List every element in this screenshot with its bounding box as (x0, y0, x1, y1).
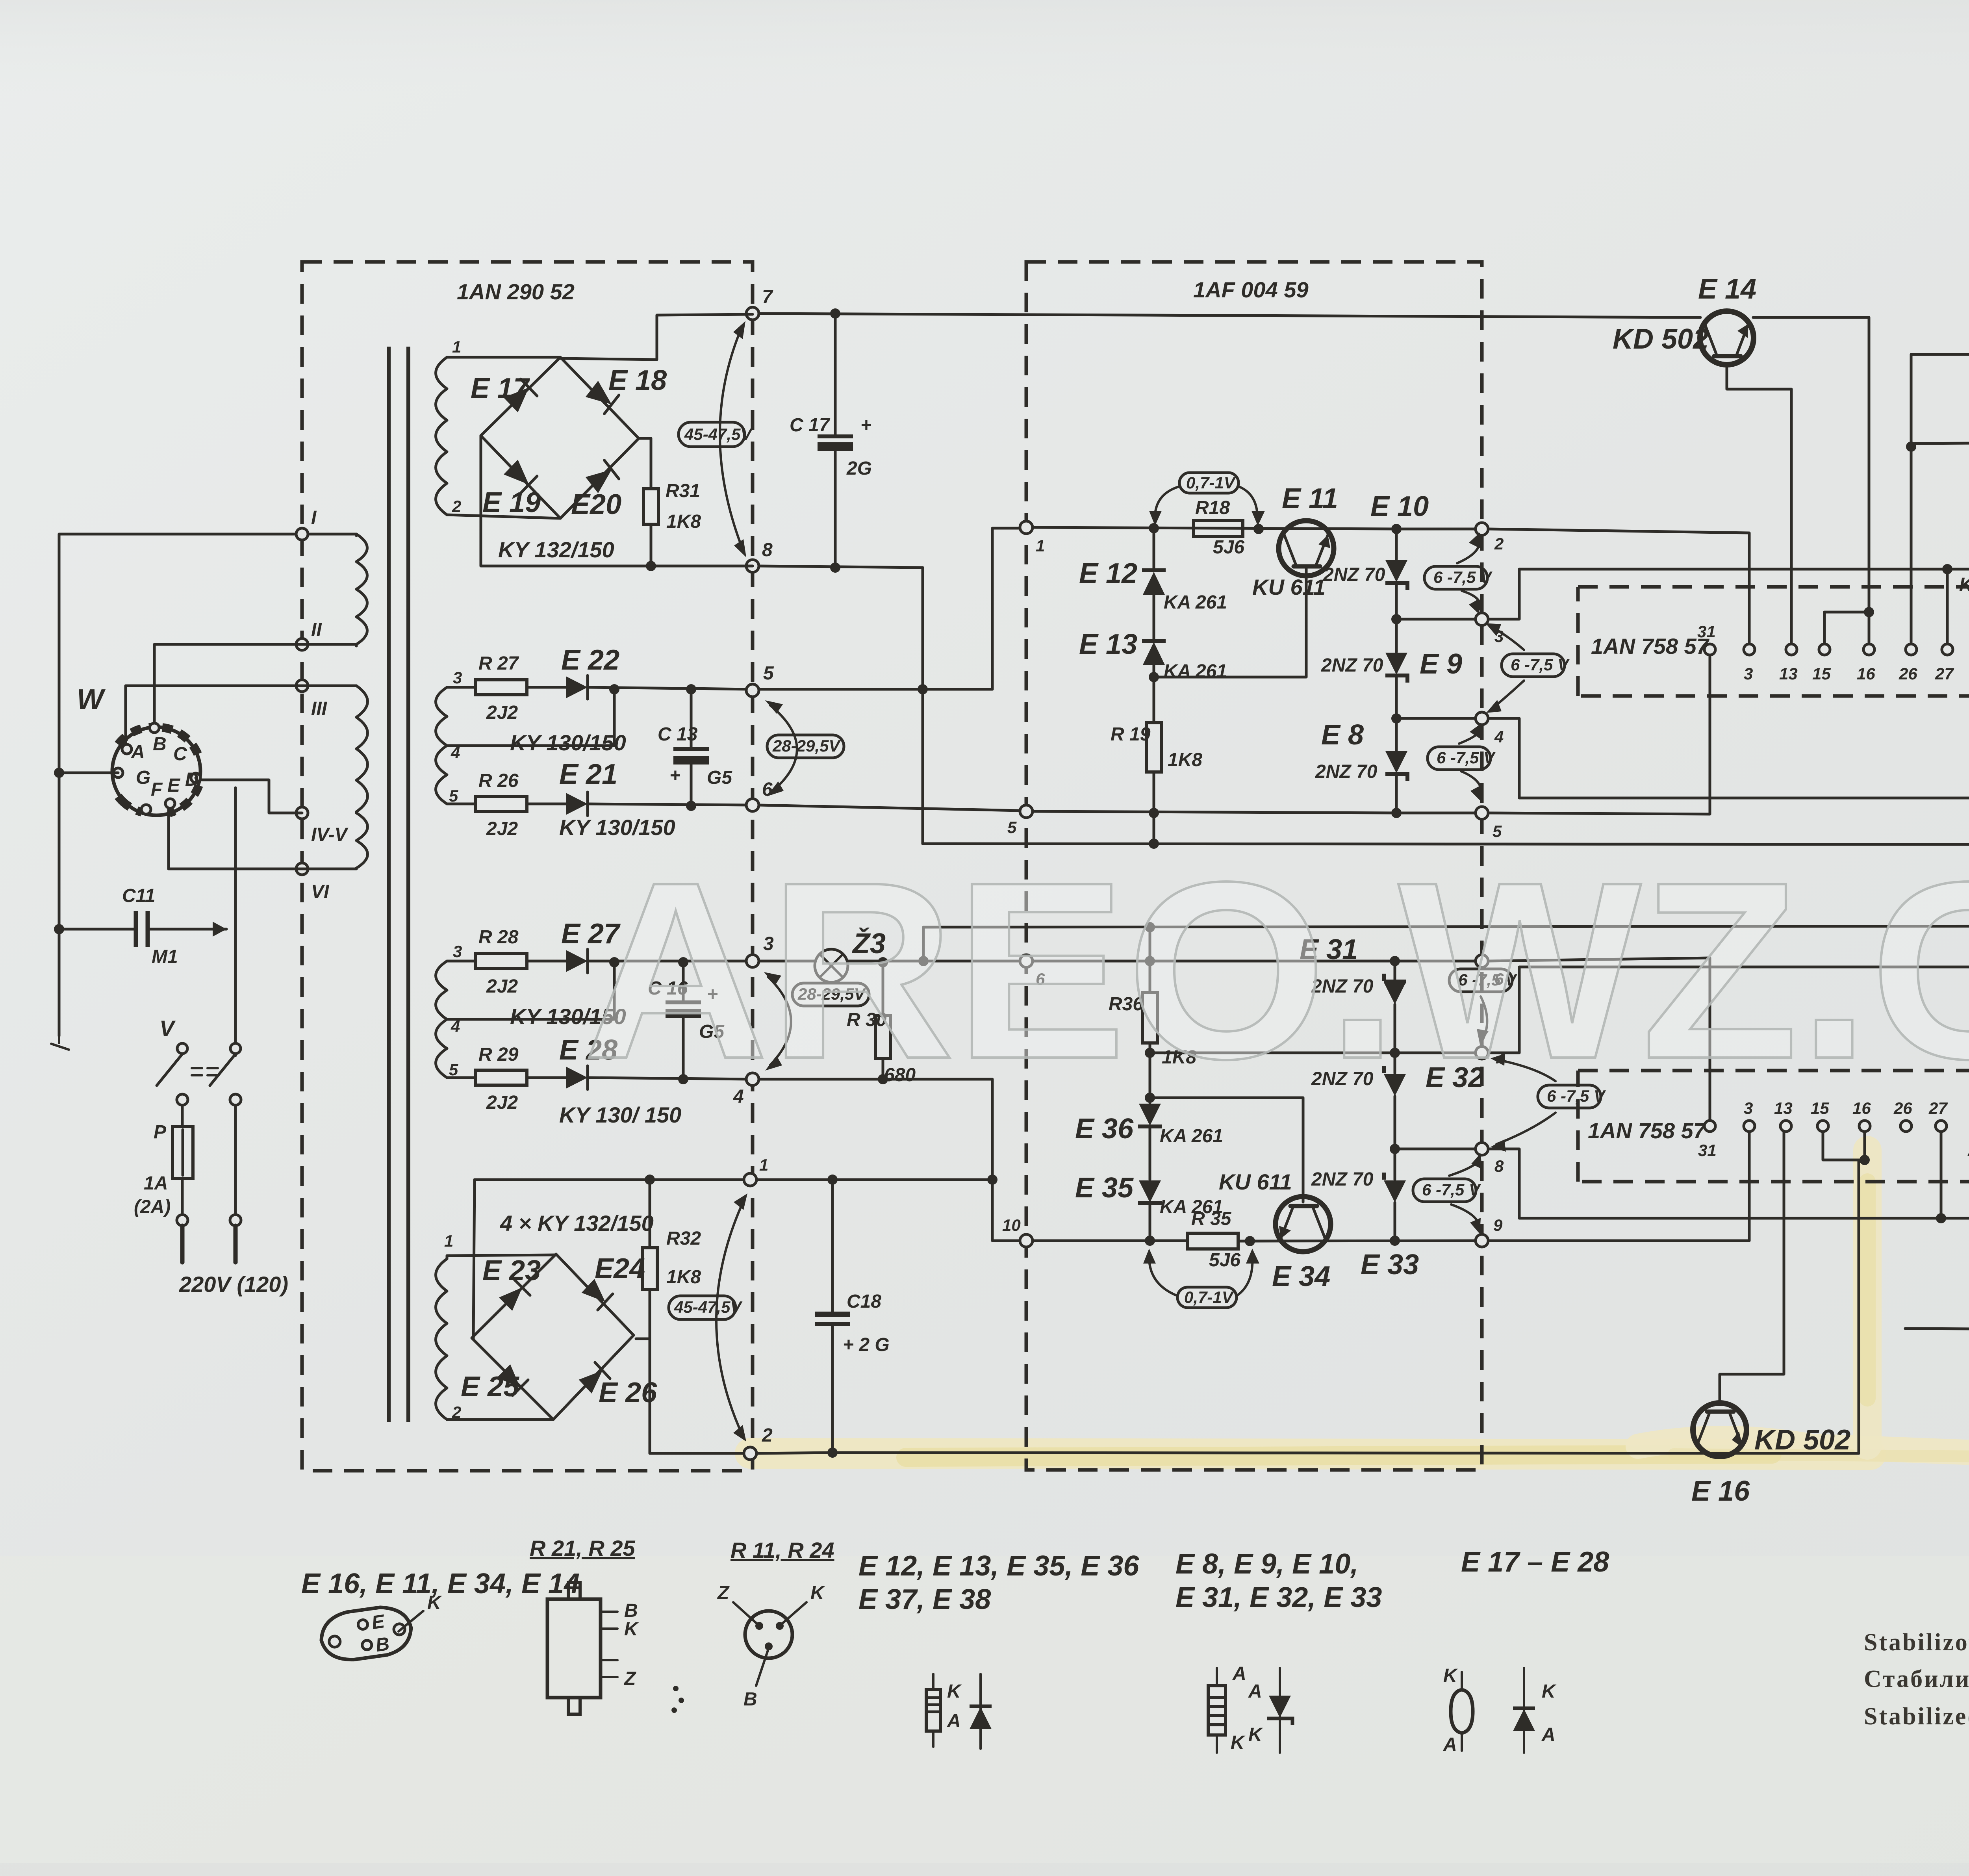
svg-text:A: A (1541, 1724, 1556, 1745)
junction dot tap4/E27 wire (609, 957, 619, 967)
rotary switch W body (112, 727, 200, 815)
svg-text:4: 4 (1494, 727, 1504, 746)
svg-text:VI: VI (311, 881, 330, 902)
wire: bridge top to node 7 (560, 314, 753, 360)
junction dot R35 right (1245, 1236, 1255, 1246)
svg-text:B: B (153, 734, 167, 755)
junction dot R31/node8 (646, 561, 656, 571)
zener diode symbol (1279, 1668, 1281, 1753)
svg-text:E 8: E 8 (1321, 719, 1364, 751)
svg-text:KA 261: KA 261 (1164, 592, 1227, 613)
svg-text:1K8: 1K8 (666, 1267, 701, 1288)
diode E35 (KA261 pointing down) (1149, 1126, 1151, 1180)
transistor E11 KU611 (1279, 521, 1334, 576)
pin 16 upper (1863, 644, 1874, 655)
minus rail upper (923, 844, 1969, 845)
resistor R18 (1194, 521, 1243, 536)
wire: bridge plus output right (639, 437, 651, 440)
junction dot C11 (54, 924, 64, 934)
svg-text:Стабилизированный источник: Стабилизированный источник (1864, 1666, 1969, 1692)
wire: pin26 riser to top rail (1910, 354, 1913, 644)
node 9 (middle box) (1476, 1234, 1488, 1247)
arc 7-8 (1496, 1060, 1556, 1144)
svg-text:K: K (1248, 1724, 1263, 1745)
wire: E14 collector right and down to pin16 (1753, 317, 1869, 612)
wire: bridge2 right to R32 column (636, 1338, 650, 1340)
lower terminal circles (177, 1215, 188, 1226)
wire: winding bottom to bridge2 bottom (447, 1418, 553, 1421)
svg-text:A: A (1248, 1681, 1262, 1702)
svg-text:IV-V: IV-V (311, 824, 349, 845)
wire: bridge2 left vertex riser to plus rail (473, 1180, 750, 1339)
svg-text:KA 261: KA 261 (1164, 661, 1227, 682)
svg-text:2J2: 2J2 (486, 702, 518, 723)
wire: winding 1 top to bridge top (447, 356, 560, 359)
transistor E14 KD502 (1700, 311, 1754, 365)
arc from oval to R18 ends (1155, 486, 1179, 520)
switch V blade right (210, 1054, 235, 1086)
node I (296, 528, 308, 540)
zener E8 (2NZ70) (1395, 718, 1398, 750)
svg-text:1AN 758 57: 1AN 758 57 (1588, 1118, 1707, 1143)
svg-text:+: + (669, 765, 680, 786)
resistor R32 (650, 1180, 744, 1453)
wire: E32 to wire8 (1394, 1096, 1396, 1149)
wire: mains left rail (58, 534, 61, 1036)
svg-text:E: E (167, 775, 181, 796)
wire: top primary feed (59, 533, 356, 536)
svg-text:AREO.WZ.CZ: AREO.WZ.CZ (583, 829, 1969, 1111)
svg-text:21: 21 (1967, 1141, 1969, 1160)
svg-text:F: F (151, 779, 163, 800)
svg-text:KU 611: KU 611 (1252, 575, 1326, 599)
svg-text:C: C (173, 744, 187, 765)
wire: junction to node 4 (1396, 717, 1476, 720)
wire: winding 2 bottom to bridge bottom (447, 515, 560, 518)
pin 27 upper (1942, 644, 1953, 655)
junction dot step (918, 684, 928, 694)
svg-text:10: 10 (1002, 1216, 1021, 1234)
svg-text:2J2: 2J2 (486, 1092, 518, 1113)
svg-text:Z: Z (623, 1668, 636, 1689)
svg-text:C18: C18 (847, 1291, 881, 1312)
svg-text:1K8: 1K8 (666, 511, 701, 532)
svg-text:E 36: E 36 (1075, 1113, 1134, 1145)
svg-text:R 21, R 25: R 21, R 25 (530, 1536, 636, 1561)
node IV-V (296, 807, 308, 819)
node 2 (middle box) (1476, 523, 1488, 535)
svg-text:V: V (159, 1016, 176, 1041)
svg-text:E 13: E 13 (1079, 629, 1137, 660)
svg-text:G5: G5 (707, 767, 732, 788)
svg-text:E 10: E 10 (1370, 491, 1429, 522)
svg-text:8: 8 (762, 540, 773, 560)
capacitor C11 (136, 911, 148, 947)
switch V contact circles top (177, 1043, 187, 1054)
wire: node4 step down to lamp row (1488, 718, 1969, 798)
oval 6-7,5V (E31) (1449, 969, 1512, 992)
svg-text:C 17: C 17 (790, 415, 831, 436)
arc 4-5 (1459, 727, 1481, 798)
svg-text:E 14: E 14 (1698, 273, 1756, 305)
svg-text:+ 2 G: + 2 G (843, 1334, 890, 1355)
wire: highlighted riser to pin16 lower (1859, 1160, 1865, 1453)
svg-text:2NZ 70: 2NZ 70 (1321, 655, 1383, 676)
lamp Z3 (815, 949, 848, 982)
wire: pin15-16 bridge lower (1823, 1132, 1865, 1160)
wire: E28 to node 4 (588, 1078, 753, 1079)
svg-text:K: K (1231, 1732, 1246, 1753)
wire: R26 to E21 (527, 803, 566, 805)
zener package symbol (1216, 1668, 1218, 1753)
junction dot E12 top (1149, 523, 1159, 533)
svg-text:E 18: E 18 (608, 365, 667, 396)
svg-text:6 -7,5 V: 6 -7,5 V (1437, 748, 1496, 767)
wire: R29 to E28 (527, 1076, 566, 1079)
svg-text:1AN 290 52: 1AN 290 52 (457, 279, 575, 304)
yellow highlighter around E16 transistor (1638, 1438, 1969, 1458)
wire: pin27 riser (1946, 569, 1949, 644)
bead diode package symbol (1461, 1672, 1463, 1751)
wire: lamp to R30 (882, 961, 884, 1015)
svg-text:Z: Z (717, 1583, 730, 1603)
zener E33 (2NZ70 pointing down) (1394, 1149, 1396, 1180)
node 8 (middle box) (1476, 1143, 1488, 1155)
svg-text:3: 3 (1744, 664, 1753, 683)
svg-text:R32: R32 (666, 1228, 701, 1249)
wire: E31 to wire7 (1394, 1004, 1396, 1053)
bridge rectifier E23-E26 diamond (472, 1254, 634, 1420)
wire: junction to node 8 (1395, 1148, 1476, 1150)
wire: E34 collector up-left (1150, 1098, 1303, 1202)
node 3 (middle box) (1476, 613, 1488, 625)
secondary winding 3-4-5 (E27/E28) (436, 961, 447, 1078)
pin 26 lower (1900, 1121, 1912, 1132)
svg-text:0,7-1V: 0,7-1V (1184, 1288, 1234, 1306)
wire: winding right joins (355, 534, 358, 646)
R11/R24 pot package (round) (745, 1611, 792, 1658)
minus rail lower (923, 926, 1969, 927)
diode E25 on lower-left edge (496, 1363, 528, 1395)
svg-text:K: K (1443, 1665, 1458, 1686)
wire: plus rail node1 to C18 and step column (756, 1178, 992, 1181)
wire: R19 to wire5 (1153, 772, 1155, 813)
svg-text:III: III (311, 698, 328, 719)
svg-text:E 31, E 32, E 33: E 31, E 32, E 33 (1175, 1582, 1382, 1613)
node 10 (middle box) (1020, 1234, 1033, 1247)
wire: left rail to switch G (59, 772, 118, 774)
wire: node5(box1) to step (759, 688, 923, 691)
node 6 (box1) (746, 799, 759, 811)
resistor R29 (476, 1070, 527, 1085)
diode E36 (KA261 pointing down) (1149, 1053, 1151, 1103)
svg-text:A: A (1232, 1663, 1246, 1684)
svg-text:R 11, R 24: R 11, R 24 (730, 1538, 834, 1562)
wire: R27 to E22 (527, 686, 566, 689)
svg-text:9: 9 (1493, 1216, 1503, 1234)
node 1 (middle box) (1020, 521, 1033, 534)
wire: E21 to node 6 (588, 804, 753, 805)
svg-text:1AN 758 57: 1AN 758 57 (1591, 634, 1710, 659)
svg-text:E 37, E 38: E 37, E 38 (858, 1584, 991, 1615)
oval 6-7,5V (2-3) (1424, 566, 1487, 589)
svg-text:2: 2 (452, 497, 461, 516)
svg-text:28-29,5V: 28-29,5V (772, 737, 841, 755)
node 8 (746, 560, 759, 572)
svg-text:E 11: E 11 (1282, 483, 1338, 514)
wire: tap 4 to C16 (447, 962, 614, 1019)
pin 3 upper (1744, 644, 1755, 655)
wire: tap 5 lower (447, 1076, 476, 1079)
oval 45-47,5V lower (669, 1296, 736, 1319)
dashed box 1AN 290 52 (302, 262, 753, 1471)
svg-text:K: K (947, 1681, 962, 1702)
svg-text:C 13: C 13 (658, 724, 698, 745)
arc 6-7 lower (1481, 996, 1487, 1040)
yellow highlighter vertical band over pin16 wire (1853, 1150, 1882, 1446)
wire: node2 to pin3 (1488, 529, 1749, 649)
diode E28 (566, 1067, 588, 1089)
transformer primary winding III-IV (356, 686, 368, 812)
wire: R36 chain up to lower minus rail (1149, 927, 1151, 961)
wire: E14 emitter to pin13 (1727, 365, 1791, 649)
wire: R30 bottom to node4 wire (882, 1059, 884, 1079)
svg-text:45-47,5V: 45-47,5V (674, 1298, 742, 1316)
wire: E8 to wire5 (1395, 774, 1398, 813)
svg-text:E 21: E 21 (559, 759, 617, 790)
svg-text:E 17: E 17 (471, 373, 530, 404)
secondary winding 3-4-5 (E21/E22) (436, 687, 447, 804)
svg-text:Stabilizovaný zdroj: Stabilizovaný zdroj (1864, 1629, 1969, 1656)
wire: node 7 to E14 top rail (759, 314, 1700, 317)
wire: riser from node5 step down to minus rail (921, 689, 924, 844)
diode E27 (566, 950, 588, 972)
wire: node5 to pin31 (1488, 649, 1710, 814)
resistor R26 (476, 796, 527, 811)
resistor R19 (1146, 723, 1161, 772)
oval 28-29,5V upper (767, 735, 844, 758)
junction dot tap4/E22 wire (609, 684, 619, 694)
diode E20 on lower-right edge (584, 460, 619, 495)
wire: fuse to lower terminal (181, 1178, 184, 1215)
switch V blade left (157, 1054, 182, 1086)
svg-text:E 22: E 22 (561, 644, 619, 676)
bridge rectifier E17-E20 diamond (481, 357, 639, 518)
svg-text:4 × KY 132/150: 4 × KY 132/150 (500, 1211, 654, 1236)
svg-text:1K8: 1K8 (1168, 750, 1202, 770)
svg-text:R18: R18 (1195, 497, 1230, 518)
wire: C18 stem (831, 1180, 834, 1453)
wire: node4(box1) row to step column (759, 1079, 1020, 1241)
svg-text:2: 2 (1494, 534, 1504, 553)
wire: E35 to wire10 (1149, 1203, 1151, 1241)
arc 8-9 (1449, 1158, 1480, 1229)
svg-text:6: 6 (762, 779, 773, 800)
zener E9 (2NZ70) (1395, 619, 1398, 652)
diode E12 (KA261, pointing up) (1153, 528, 1155, 571)
wire: pin26 riser to PR1 contact (1911, 443, 1969, 443)
wire: node6(box1) to node 5 middle (759, 805, 1020, 811)
switch V equals marks (192, 1068, 218, 1075)
transistor E16 KD502 (1693, 1403, 1747, 1457)
wire: E27 to node 3 (588, 960, 753, 963)
diode E17 on upper-left edge (502, 379, 537, 414)
wire: node II to switch B (154, 644, 356, 725)
wire: pin16 stub (1868, 612, 1871, 644)
junction dot E13 bottom (1153, 665, 1155, 723)
node 7 (middle box) (1476, 1047, 1488, 1059)
svg-text:KD 502: KD 502 (1613, 323, 1709, 355)
svg-text:A: A (1443, 1734, 1457, 1755)
pin 27 lower (1936, 1121, 1947, 1132)
zener chain top junction (1391, 524, 1402, 534)
svg-text:1AF 004 59: 1AF 004 59 (1193, 277, 1309, 302)
wire: Z3 lamp row into node 6 (759, 960, 1020, 963)
node 5 right (middle box) (1476, 807, 1488, 819)
wire: pin15-16 bridge upper (1824, 612, 1869, 644)
legend dots (671, 1686, 684, 1713)
svg-text:5: 5 (449, 787, 458, 805)
svg-text:(2A): (2A) (134, 1197, 171, 1217)
node III (296, 680, 308, 692)
svg-text:KD 502: KD 502 (1754, 1424, 1850, 1456)
svg-text:1: 1 (759, 1156, 768, 1174)
dashed box lower 1AN 758 57 (1578, 1071, 1969, 1182)
arc 3-4 (1491, 626, 1524, 709)
TO-3 package outline (318, 1603, 414, 1664)
wire: step up to node 1 (923, 528, 1020, 689)
resistor R35 (1188, 1233, 1238, 1249)
svg-text:E20: E20 (571, 489, 621, 520)
wire: node9 to pin3 lower (1488, 1132, 1749, 1241)
svg-text:1: 1 (1036, 536, 1045, 555)
wire: wire6 row (1033, 960, 1476, 963)
wire: junction to node 7 (1395, 1052, 1476, 1054)
svg-text:R 28: R 28 (478, 927, 519, 948)
svg-text:E 34: E 34 (1272, 1261, 1330, 1292)
svg-text:E 35: E 35 (1075, 1172, 1134, 1204)
pin 3 lower (1744, 1121, 1755, 1132)
wire: node3 step up to E37 wire (1488, 569, 1947, 619)
pin 15 lower (1817, 1121, 1828, 1132)
wire: right leg down (234, 1105, 237, 1215)
node VI (296, 863, 308, 875)
arcs from oval to R35 ends (1149, 1254, 1177, 1296)
node 1 (box1) (744, 1173, 756, 1186)
svg-text:Stabilized power supply: Stabilized power supply (1864, 1703, 1969, 1730)
top plus rail (1911, 353, 1969, 354)
wire: node8 step to join (759, 566, 923, 689)
measurement oval 0,7-1V upper (1179, 473, 1239, 493)
oval 6-7,5V (4-5) (1428, 747, 1491, 770)
measuring arc node3-node4 (768, 977, 791, 1065)
secondary winding 1-2 (bottom) (436, 1259, 447, 1420)
junction dot PR1 branch (1906, 442, 1916, 452)
svg-text:15: 15 (1812, 664, 1831, 683)
svg-text:2J2: 2J2 (486, 976, 518, 997)
node 4 (box1) (746, 1073, 759, 1086)
TO-3 K pin arrow (399, 1611, 423, 1631)
svg-text:K: K (624, 1619, 639, 1640)
svg-text:C11: C11 (122, 885, 156, 906)
yellow highlighted bottom wire (756, 1453, 1859, 1453)
junction dot pin27 lower (1936, 1213, 1946, 1223)
svg-text:8: 8 (1494, 1157, 1504, 1175)
node 5 left (middle box) (1020, 805, 1033, 818)
measuring arc node5-node6 (770, 705, 797, 792)
small resistor symbol with bands (932, 1674, 934, 1747)
svg-text:KU 611: KU 611 (1219, 1169, 1292, 1194)
svg-text:A: A (947, 1711, 961, 1731)
resistor R30 (875, 1015, 890, 1059)
oval 45-47,5V upper (679, 422, 745, 447)
diode E23 on upper-left edge (498, 1280, 530, 1312)
svg-text:5J6: 5J6 (1213, 537, 1244, 558)
measurement oval 0,7-1V lower (1177, 1287, 1237, 1308)
node II (296, 638, 308, 650)
svg-text:E 12, E 13, E 35, E 36: E 12, E 13, E 35, E 36 (858, 1550, 1139, 1582)
wire: R31 bottom to node 8 (651, 565, 753, 568)
node 3 (box1) (746, 955, 759, 967)
zener chain lower top junction (1390, 956, 1400, 966)
wire: E33 to wire10 (1394, 1202, 1396, 1241)
wire: tap 4 to C13 (447, 689, 614, 746)
diode E22 (566, 676, 588, 698)
R21/R25 pot package (547, 1599, 601, 1698)
svg-text:A: A (131, 742, 145, 763)
svg-text:16: 16 (1857, 664, 1875, 683)
wire: node VI to switch E (169, 800, 356, 869)
svg-text:2NZ 70: 2NZ 70 (1315, 761, 1378, 782)
diode E18 on upper-right edge (584, 380, 619, 414)
svg-text:K: K (1542, 1681, 1557, 1702)
wire: node6 to pin31 lower (1488, 958, 1710, 1121)
svg-text:B: B (375, 1633, 391, 1656)
wire: rail corner to PR2 contact (1905, 1329, 1969, 1329)
wire: left rail break mark (51, 1036, 69, 1050)
wire: node III to switch A (126, 686, 356, 748)
svg-text:B: B (743, 1689, 757, 1710)
svg-text:6 -7,5 V: 6 -7,5 V (1433, 568, 1493, 586)
svg-text:E 19: E 19 (482, 487, 541, 518)
svg-text:P: P (154, 1122, 167, 1143)
wire: node IV-V to switch D (197, 780, 302, 813)
wire: C11 right to arrow junction (148, 928, 226, 931)
svg-text:2NZ 70: 2NZ 70 (1323, 564, 1385, 585)
wire: switch E riser down (234, 788, 237, 1056)
resistor R31 (650, 438, 653, 566)
wire: tap 3 lower (447, 960, 476, 963)
wire: E38 anode wire (1941, 1217, 1969, 1220)
svg-text:13: 13 (1779, 664, 1798, 683)
oval 6-7,5V (7-8) (1538, 1085, 1601, 1108)
svg-text:2J2: 2J2 (486, 818, 518, 839)
svg-text:E 8, E 9, E 10,: E 8, E 9, E 10, (1175, 1548, 1358, 1580)
arc 2-3 (1457, 536, 1480, 611)
node 6 right (middle box) (1476, 955, 1488, 967)
wire: node7 step up to lamp row lower (1488, 967, 1969, 1053)
svg-text:W: W (77, 684, 106, 715)
svg-text:K: K (427, 1592, 442, 1613)
pin 31 upper (1704, 644, 1715, 655)
svg-text:KA 261: KA 261 (1160, 1126, 1223, 1147)
svg-text:E 25: E 25 (461, 1371, 519, 1403)
transistor E34 KU611 (1276, 1197, 1331, 1252)
svg-text:E 9: E 9 (1420, 648, 1462, 680)
svg-text:6 -7,5 V: 6 -7,5 V (1422, 1180, 1481, 1199)
junction dot pin27 top (1942, 564, 1952, 574)
measuring arc node7-node8 (720, 327, 743, 551)
